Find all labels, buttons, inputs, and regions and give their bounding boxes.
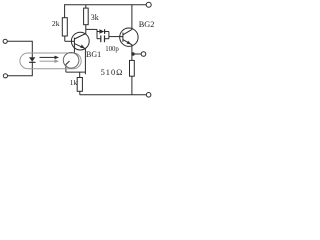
wire 510 bottom — [131, 76, 133, 95]
transistor BG1 collector — [74, 25, 85, 39]
transistor BG2 circle — [120, 28, 138, 46]
transistor BG2 base bar — [122, 33, 124, 42]
wire network right bar — [108, 32, 110, 39]
phototransistor circle — [63, 53, 79, 69]
wire LED cathode down — [8, 62, 33, 76]
wire bottom rail — [80, 94, 146, 96]
wire 2k top — [64, 4, 66, 18]
diode D cathode bar — [104, 29, 106, 34]
svg-text:100p: 100p — [105, 46, 119, 53]
wire emitter to terminal — [132, 53, 141, 55]
phototransistor emitter — [66, 61, 70, 72]
diode D triangle — [99, 29, 104, 34]
LED cathode bar — [29, 61, 35, 63]
svg-text:510Ω: 510Ω — [101, 68, 124, 77]
wire 1k top stub — [79, 72, 81, 77]
terminal T1 input top — [3, 39, 7, 43]
wire input top — [7, 41, 32, 57]
resistor R 1k body — [77, 78, 82, 92]
transistor BG2 emitter arrow — [127, 41, 132, 45]
wire network left bar — [96, 29, 98, 38]
terminal T3 top right — [146, 2, 151, 7]
wire to 510 resistor — [131, 54, 133, 60]
light arrow 1 — [40, 56, 60, 60]
resistor R 510 body — [130, 60, 135, 76]
wire node A base — [65, 40, 75, 42]
svg-text:BG1: BG1 — [86, 50, 101, 59]
node emitter junction dot — [131, 52, 134, 55]
svg-text:BG2: BG2 — [139, 20, 155, 29]
resistor R 3k body — [84, 8, 89, 25]
wire emitter row — [66, 71, 86, 73]
transistor BG1 emitter — [74, 44, 85, 75]
wire diode to right bar — [105, 31, 109, 33]
svg-text:2k: 2k — [52, 19, 60, 28]
wire diode anode — [97, 31, 99, 33]
wire 1k bottom — [79, 91, 81, 95]
light arrow 2 — [40, 59, 60, 63]
svg-text:1k: 1k — [70, 78, 78, 87]
transistor BG1 base bar — [73, 38, 75, 54]
wire top rail — [65, 4, 147, 6]
wire 2k bottom — [64, 36, 66, 41]
terminal T2 input bottom — [3, 74, 7, 78]
svg-text:3k: 3k — [91, 13, 99, 22]
capacitor C 100p plate1 — [100, 35, 102, 42]
wire cap left — [97, 38, 101, 40]
terminal T5 bottom right — [146, 93, 151, 98]
wire cap right — [105, 38, 109, 40]
transistor BG2 emitter — [123, 40, 132, 55]
transistor BG1 circle — [71, 32, 89, 50]
resistor R 2k body — [62, 18, 67, 36]
terminal T4 output — [141, 52, 146, 57]
LED triangle — [29, 57, 35, 62]
transistor BG2 collector — [123, 5, 132, 35]
wire 3k top stub — [85, 5, 87, 8]
wire collector node to network — [86, 28, 97, 30]
transistor BG1 emitter arrow — [80, 45, 85, 49]
optocoupler stadium outline — [20, 53, 81, 69]
wire network to BG2 base — [109, 36, 123, 38]
capacitor C 100p plate2 — [104, 35, 106, 42]
